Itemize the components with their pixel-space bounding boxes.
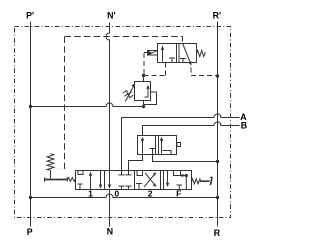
node bottom line at R' [216, 196, 219, 199]
V1 internal flow arrow [145, 87, 149, 97]
U2 solenoid actuator [148, 51, 158, 56]
node at P' / relief line [29, 105, 32, 108]
V2 right cell elbow [163, 151, 172, 155]
wire N vertical lower [109, 190, 111, 227]
node pilot drain at R' [216, 74, 219, 77]
V3 posF down arrow [167, 171, 169, 185]
svg-text:P': P' [26, 11, 34, 21]
wire relief line from P' with jump over N' [31, 103, 144, 107]
relief valve V1 top stub [143, 76, 145, 82]
V3 posF blocked port [177, 185, 183, 190]
V3 divider 1|0 [104, 171, 106, 190]
pilot dashed U2 drain to R' [191, 68, 217, 76]
svg-text:0: 0 [114, 189, 119, 199]
U2 right cell diagonal flow arrow [183, 44, 191, 63]
V1 adjustable spring [125, 85, 134, 101]
wire A line with jump over R' [122, 114, 240, 170]
V3 pos1 notch [78, 171, 83, 175]
svg-text:N: N [107, 227, 113, 237]
V2 right cell flow arrow [161, 139, 163, 154]
pilot dashed along top to solenoid valve [65, 36, 183, 38]
shuttle valve V2 body [138, 136, 177, 155]
V3 pos0 blocked B bottom [125, 186, 131, 189]
U2 solenoid lead [144, 52, 148, 54]
node shuttle drain at R' [216, 160, 219, 163]
svg-text:B: B [241, 121, 247, 131]
U2 left cell blocked port [169, 58, 175, 63]
enclosure dash-dot border [15, 27, 231, 218]
relief valve V1 body [135, 82, 151, 101]
V3 pos2 cross arrow a [144, 174, 155, 187]
node at relief valve bottom [142, 105, 145, 108]
V3 divider 2|F double [161, 171, 164, 190]
pilot dashed drop to solenoid valve top port [182, 37, 184, 44]
V3 pos0 blocked A bottom [119, 186, 125, 189]
U2 return spring [197, 51, 206, 57]
node bottom line at P' [29, 196, 32, 199]
wire shuttle right port to R' [153, 155, 218, 162]
pilot dashed from N' line to left actuator [61, 37, 65, 169]
V1 external pilot bypass [144, 92, 157, 105]
V3 pos0 blocked B top [125, 171, 131, 175]
V3 pos2 notch [137, 171, 143, 176]
V3 pos0 down arrow to N [109, 171, 111, 187]
V3 pos1 down arrow [100, 171, 102, 187]
wire R' vertical [217, 22, 219, 227]
V3 right actuator rod [200, 180, 210, 182]
V3 right actuator pin [210, 177, 212, 185]
pilot dashed to U2 supply port [144, 63, 166, 76]
V3 pos1 blocked port [78, 184, 83, 190]
pilot node above relief valve [142, 74, 145, 77]
svg-text:R': R' [213, 11, 221, 21]
V3 left actuator plate [45, 179, 68, 181]
svg-text:F: F [176, 189, 181, 199]
svg-text:2: 2 [148, 189, 153, 199]
svg-text:R: R [214, 228, 221, 238]
V3 centering coil spring [47, 154, 54, 171]
V3 pos1 up arrow [90, 174, 92, 190]
wire P' vertical [30, 22, 32, 227]
wire B line with jump over R' [143, 122, 240, 136]
V3 left actuator spring link [68, 178, 76, 182]
solenoid valve U2 body [158, 44, 197, 63]
svg-text:N': N' [107, 11, 115, 21]
main directional valve V3 body [76, 171, 192, 190]
wire bottom P-R line with jump over N [31, 194, 218, 197]
V2 left cell flow arrow [142, 139, 144, 154]
wire shuttle left port to valve B port [129, 155, 143, 171]
V3 pos2 blocked port [136, 184, 142, 190]
wire N' vertical upper with jump over pilot line [106, 23, 109, 171]
V3 pos0 blocked A top [119, 171, 125, 175]
V3 posF top gallery [173, 171, 186, 190]
V3 pos2 cross arrow b [145, 173, 155, 185]
V3 right actuator spring [192, 179, 201, 184]
V2 plugged side port [177, 143, 181, 147]
svg-text:P: P [27, 227, 33, 237]
V2 left cell seat [150, 149, 156, 155]
V3 divider 0|2 [134, 171, 136, 190]
U2 left cell flow arrow [162, 48, 164, 62]
svg-text:1: 1 [88, 189, 93, 199]
V1 bottom stub [143, 101, 145, 107]
U2 right cell blocked port [180, 59, 186, 63]
